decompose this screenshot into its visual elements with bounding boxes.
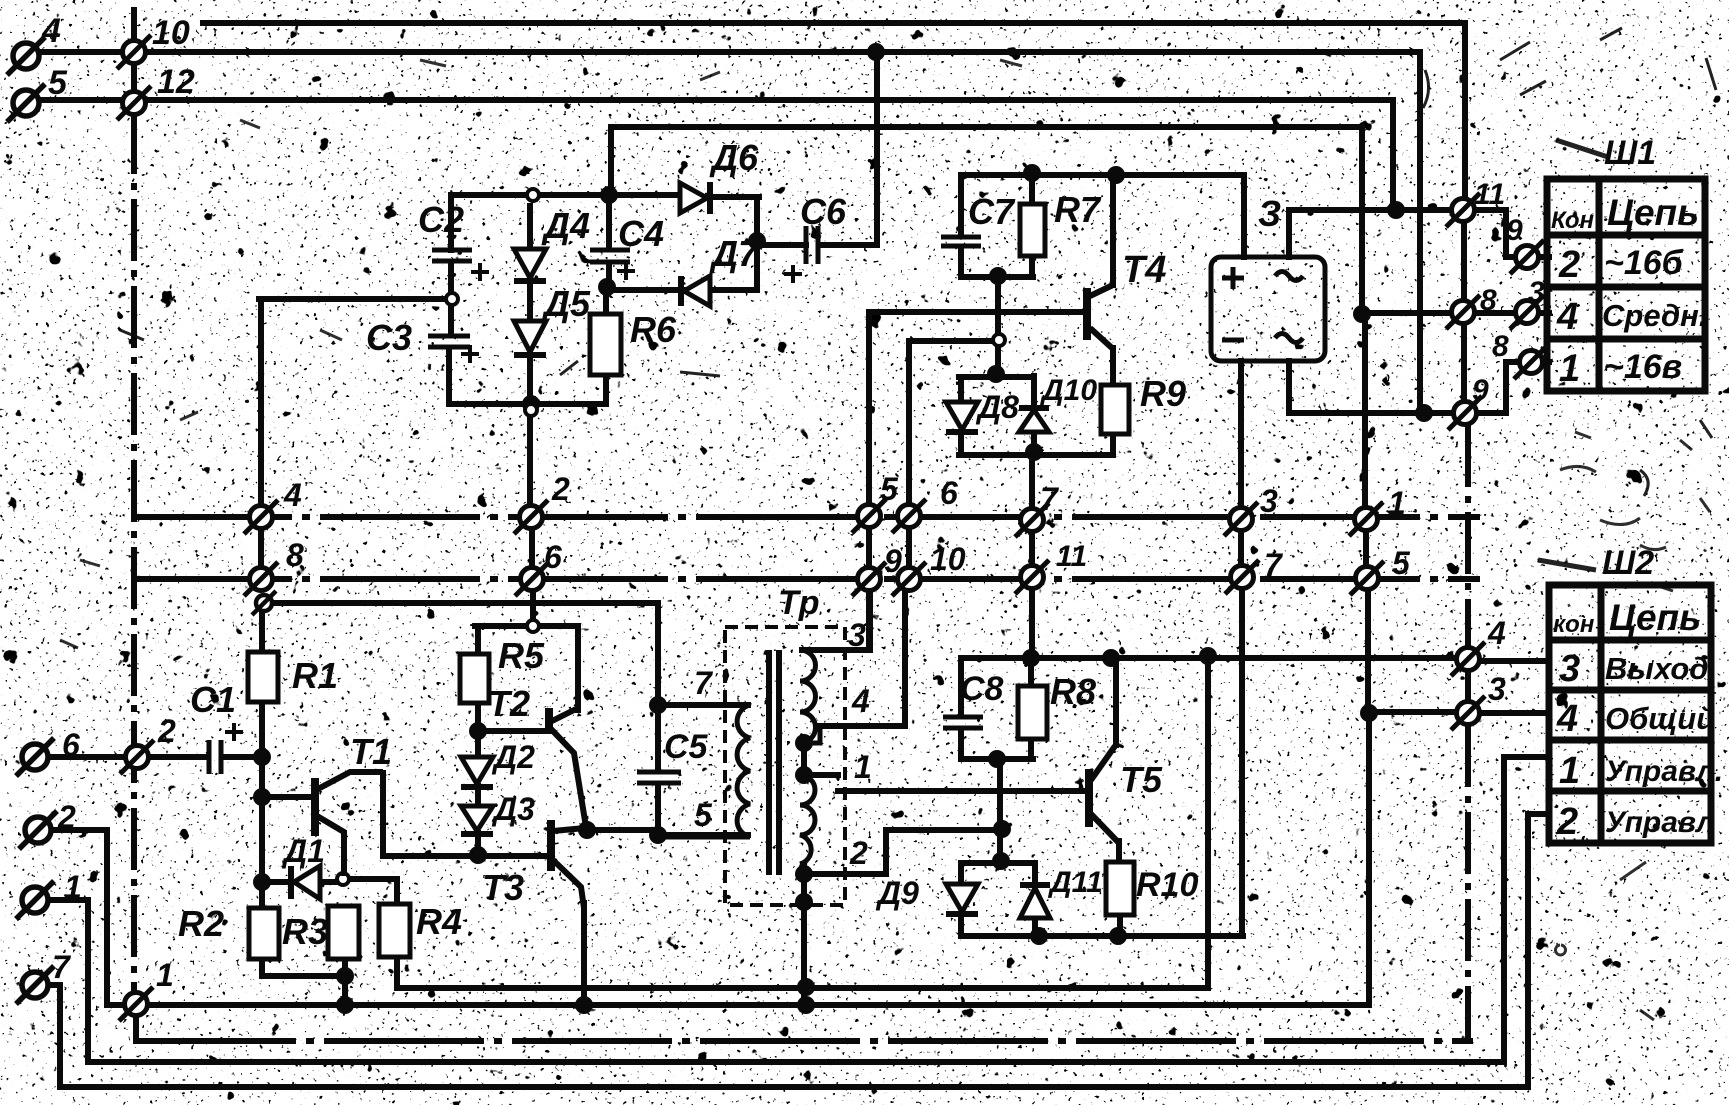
svg-text:Цепь: Цепь [1607,192,1699,233]
svg-text:R7: R7 [1054,189,1102,230]
svg-text:Tр: Tр [778,584,820,622]
svg-text:3: 3 [848,617,866,653]
svg-text:Д8: Д8 [975,389,1019,425]
svg-text:5: 5 [694,797,713,833]
svg-text:5: 5 [1392,545,1411,581]
svg-text:4: 4 [851,683,870,719]
svg-text:4: 4 [1487,615,1506,651]
svg-text:Д9: Д9 [875,875,919,911]
svg-text:5: 5 [880,471,899,507]
svg-text:Д2: Д2 [491,739,535,775]
svg-text:2: 2 [157,713,176,749]
svg-text:1: 1 [1559,750,1580,792]
svg-text:7: 7 [52,949,72,985]
svg-text:9: 9 [1472,374,1489,407]
svg-text:~16в: ~16в [1604,348,1682,386]
svg-text:R4: R4 [416,901,462,942]
svg-text:6: 6 [544,539,562,575]
svg-text:3: 3 [1559,648,1580,690]
svg-text:Д5: Д5 [541,283,591,324]
svg-text:R5: R5 [498,635,545,676]
svg-text:10: 10 [930,541,966,577]
svg-text:R10: R10 [1136,866,1198,904]
svg-text:2: 2 [551,471,570,507]
svg-text:Общий: Общий [1605,701,1715,736]
svg-text:Выход: Выход [1605,651,1708,686]
svg-text:Д4: Д4 [541,205,590,246]
svg-text:C5: C5 [664,728,709,766]
svg-text:T2: T2 [488,683,530,724]
svg-text:Д10: Д10 [1039,374,1097,407]
svg-text:8: 8 [286,537,304,573]
svg-text:C1: C1 [190,679,236,720]
svg-text:1: 1 [1388,485,1406,521]
svg-text:Д3: Д3 [491,791,535,827]
svg-text:Ш1: Ш1 [1604,134,1656,172]
svg-text:3: 3 [1488,671,1506,707]
svg-text:10: 10 [152,14,190,52]
svg-text:Д7: Д7 [709,233,760,274]
svg-text:C7: C7 [968,191,1016,232]
svg-text:1: 1 [156,957,174,993]
svg-text:R6: R6 [630,309,677,350]
svg-text:T5: T5 [1120,759,1163,800]
svg-text:~16б: ~16б [1604,244,1684,282]
svg-text:T3: T3 [482,867,524,908]
svg-text:Цепь: Цепь [1609,597,1701,638]
svg-text:C2: C2 [418,199,464,240]
svg-text:C8: C8 [960,670,1004,708]
svg-text:12: 12 [157,63,195,101]
svg-text:9: 9 [884,543,902,579]
svg-text:8: 8 [1480,284,1497,317]
svg-text:7: 7 [1264,547,1284,583]
svg-text:7: 7 [694,665,714,701]
svg-text:R8: R8 [1050,671,1096,712]
svg-text:Ш2: Ш2 [1602,544,1654,582]
svg-text:Управл.: Управл. [1605,755,1723,788]
svg-text:2: 2 [1556,801,1578,843]
svg-text:1: 1 [854,749,872,785]
svg-text:R9: R9 [1140,373,1186,414]
svg-text:R2: R2 [178,903,224,944]
svg-text:6: 6 [940,475,958,511]
svg-text:Д6: Д6 [709,137,759,178]
svg-text:кон: кон [1553,611,1595,638]
svg-text:5: 5 [48,64,68,102]
svg-text:T1: T1 [350,731,392,772]
svg-text:Д1: Д1 [281,833,325,869]
svg-text:11: 11 [1056,540,1087,573]
svg-text:Управл: Управл [1605,806,1715,839]
svg-text:T4: T4 [1122,249,1166,291]
svg-text:2: 2 [1558,244,1580,286]
svg-text:C6: C6 [800,191,847,232]
svg-text:Д11: Д11 [1047,866,1103,899]
svg-text:R3: R3 [282,911,328,952]
svg-text:3: 3 [1528,276,1545,309]
svg-text:7: 7 [1040,481,1060,517]
svg-text:6: 6 [62,727,80,763]
svg-text:11: 11 [1474,178,1505,211]
svg-text:2: 2 [849,835,868,871]
svg-text:1: 1 [1559,348,1580,390]
svg-text:3: 3 [1260,483,1278,519]
svg-text:1: 1 [64,869,82,905]
svg-text:4: 4 [41,12,61,50]
svg-text:4: 4 [283,477,302,513]
svg-text:Кон: Кон [1551,207,1595,234]
svg-text:C3: C3 [366,317,412,358]
svg-text:8: 8 [1492,330,1509,363]
svg-text:4: 4 [1556,698,1578,740]
svg-text:R1: R1 [292,655,338,696]
svg-text:З: З [1258,193,1281,234]
svg-text:C4: C4 [618,213,664,254]
svg-text:4: 4 [1556,296,1578,338]
svg-text:9: 9 [1506,214,1523,247]
svg-text:2: 2 [57,799,76,835]
svg-text:Средн.: Средн. [1602,298,1707,333]
